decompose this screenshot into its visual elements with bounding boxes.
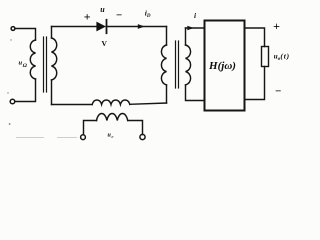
svg-text:−: − [275,85,281,97]
svg-text:+: + [84,10,91,24]
svg-text:+: + [273,19,280,33]
svg-text:(t): (t) [280,52,289,61]
svg-text:c: c [112,134,114,139]
svg-text:H(jω): H(jω) [208,60,236,72]
svg-text:D: D [146,14,151,19]
svg-text:u: u [100,5,105,14]
svg-text:Ω: Ω [23,63,28,69]
svg-text:−: − [116,9,122,21]
svg-text:i: i [194,11,197,20]
svg-text:V: V [101,39,107,48]
